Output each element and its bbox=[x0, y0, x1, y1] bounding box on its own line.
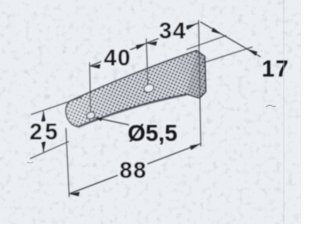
extension line 88 left bbox=[66, 128, 69, 197]
arrow 25 down bbox=[41, 142, 45, 152]
scan streak right bbox=[283, 0, 285, 224]
arrow 40 left bbox=[90, 64, 101, 68]
extension line 17 upper bbox=[187, 35, 227, 49]
extension line for dim 40 left (to hole 1) bbox=[90, 63, 91, 112]
arrow 34 left bbox=[146, 41, 157, 45]
dimension line 40 bbox=[90, 43, 147, 66]
hole 2 (right) bbox=[143, 83, 155, 94]
scan smudge near 17 bbox=[266, 105, 276, 107]
dimension line 25 top segment bbox=[43, 111, 45, 119]
arrow 34 right bbox=[186, 24, 197, 30]
extension line right end (34 / 88) bbox=[199, 20, 201, 147]
extension line 17 lower bbox=[202, 47, 253, 63]
svg-text:17: 17 bbox=[262, 56, 290, 82]
dimension line 88 bbox=[69, 144, 200, 194]
svg-text:Ø5,5: Ø5,5 bbox=[128, 120, 178, 146]
extension line 25 top (tangent cap top) bbox=[31, 97, 82, 115]
leader line Ø5,5 bbox=[95, 118, 129, 125]
arrow 17 lower (points up-left at E2) bbox=[247, 49, 257, 56]
hole 1 (left, Ø5,5) bbox=[86, 111, 96, 120]
extension line 25 bottom bbox=[30, 141, 69, 158]
leader arrow at hole 1 bbox=[95, 117, 103, 121]
arrow 88 right bbox=[190, 144, 201, 150]
extension line middle (to hole 2) bbox=[146, 39, 148, 85]
svg-text:40: 40 bbox=[104, 45, 132, 71]
plate tone overlay bbox=[66, 51, 206, 127]
svg-text:34: 34 bbox=[159, 18, 187, 44]
arrow 88 left bbox=[69, 192, 80, 196]
dimension line 17 bbox=[200, 22, 260, 57]
dimension line 25 bottom segment bbox=[43, 142, 45, 153]
flange shading (right end darker) bbox=[187, 51, 206, 99]
dimension line 34 bbox=[146, 23, 198, 43]
svg-text:25: 25 bbox=[30, 119, 61, 145]
arrow 25 up bbox=[41, 111, 45, 121]
arrow 17 upper (points down-right at E1) bbox=[211, 28, 221, 35]
scan smudge below 25 bbox=[27, 162, 33, 163]
plate bottom edge emphasis bbox=[78, 95, 187, 128]
bracket plate outline with halftone fill bbox=[66, 51, 206, 127]
arrow 40 right bbox=[136, 43, 147, 49]
svg-text:88: 88 bbox=[120, 157, 148, 183]
